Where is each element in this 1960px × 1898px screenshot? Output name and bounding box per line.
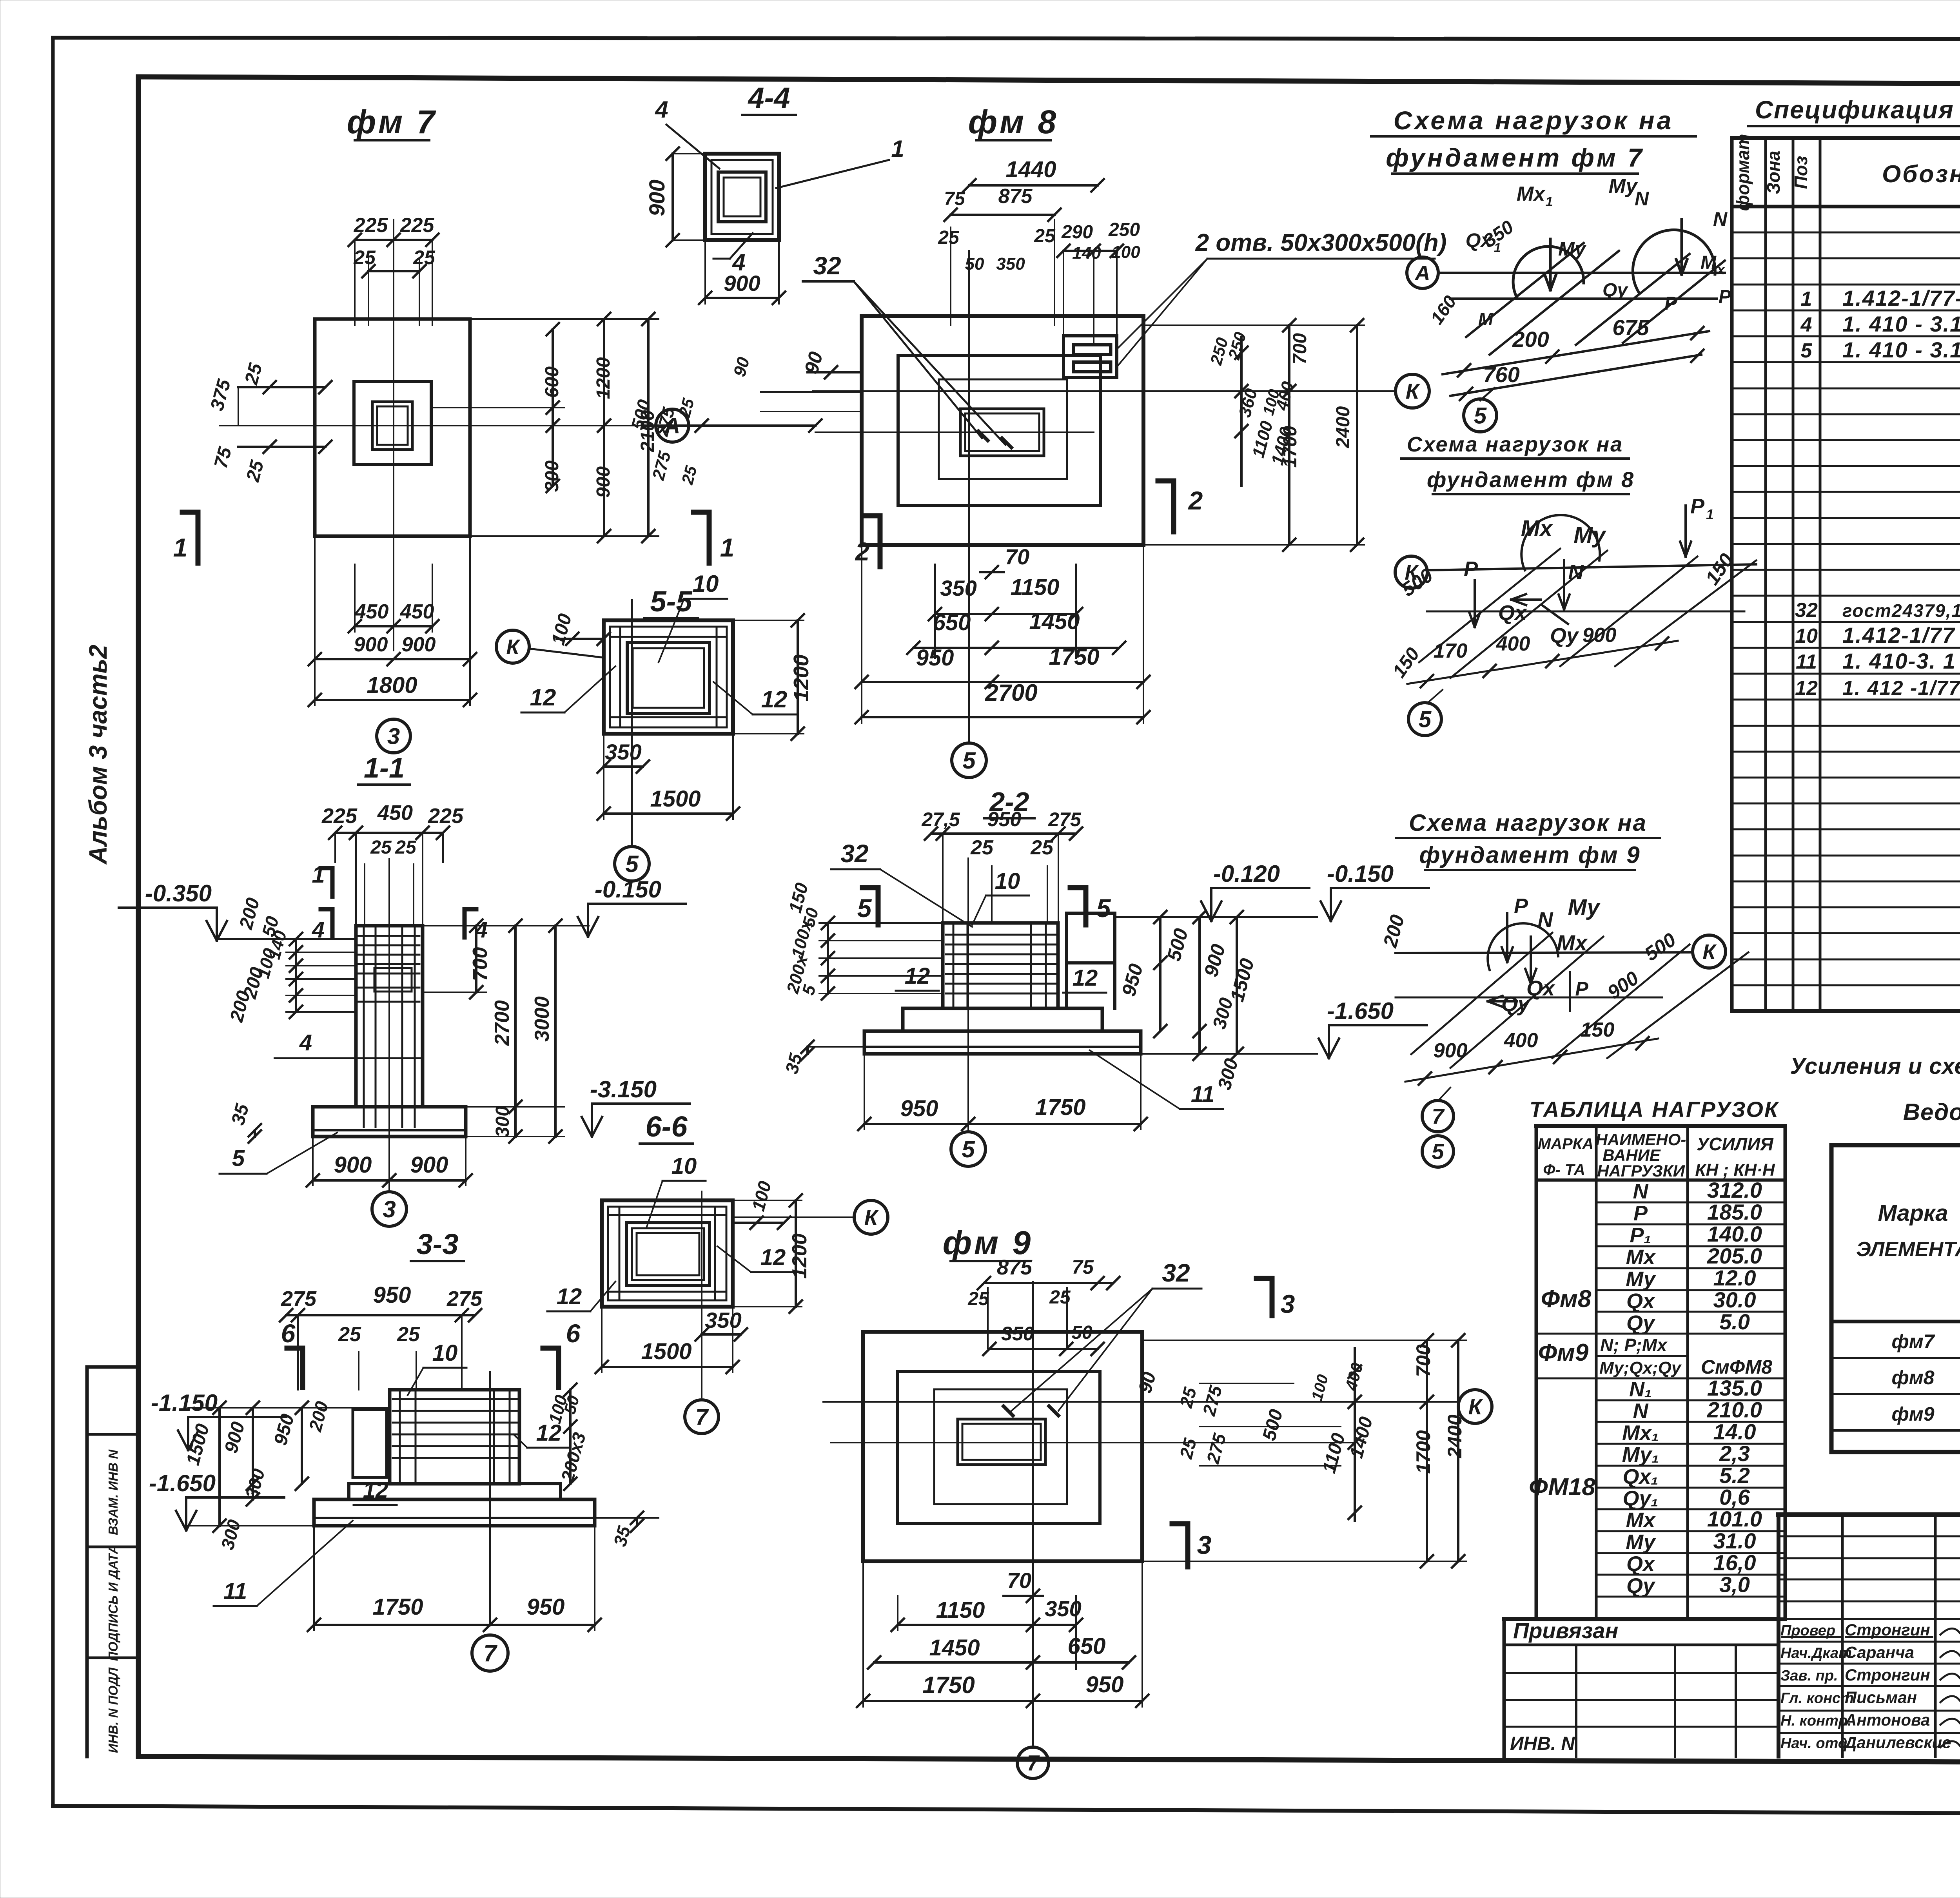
svg-text:ИНВ. N ПОДЛ: ИНВ. N ПОДЛ bbox=[106, 1667, 120, 1753]
svg-text:-1.650: -1.650 bbox=[149, 1470, 216, 1496]
svg-text:5: 5 bbox=[1801, 339, 1813, 362]
svg-text:185.0: 185.0 bbox=[1707, 1200, 1762, 1224]
svg-text:фм 7: фм 7 bbox=[347, 103, 437, 140]
svg-text:-1.650: -1.650 bbox=[1327, 998, 1394, 1024]
svg-text:Схема нагрузок на: Схема нагрузок на bbox=[1409, 810, 1647, 836]
svg-text:90: 90 bbox=[1135, 1370, 1160, 1396]
svg-text:275: 275 bbox=[446, 1287, 483, 1311]
svg-text:Стронгин: Стронгин bbox=[1845, 1621, 1930, 1639]
svg-text:Р: Р bbox=[1633, 1202, 1648, 1225]
svg-text:35: 35 bbox=[228, 1101, 253, 1128]
svg-text:1: 1 bbox=[1706, 506, 1714, 522]
svg-text:200: 200 bbox=[305, 1399, 332, 1434]
svg-text:Зав. пр.: Зав. пр. bbox=[1780, 1668, 1838, 1684]
svg-text:Р: Р bbox=[1690, 495, 1705, 518]
svg-text:Альбом 3 часть2: Альбом 3 часть2 bbox=[84, 645, 112, 865]
svg-text:2400: 2400 bbox=[1444, 1414, 1466, 1458]
svg-text:Ведомость расхода стали: Ведомость расхода стали на элемент, кг bbox=[1903, 1099, 1960, 1125]
svg-text:М: М bbox=[1478, 309, 1494, 329]
svg-text:35: 35 bbox=[610, 1523, 635, 1548]
svg-text:140.0: 140.0 bbox=[1707, 1222, 1762, 1246]
svg-text:2700: 2700 bbox=[491, 1000, 514, 1046]
left stamp column bbox=[87, 1367, 138, 1757]
svg-text:Обозначение: Обозначение bbox=[1882, 161, 1960, 188]
svg-text:4: 4 bbox=[299, 1030, 312, 1055]
svg-text:900: 900 bbox=[334, 1152, 372, 1178]
svg-text:1750: 1750 bbox=[372, 1594, 423, 1620]
svg-text:фм8: фм8 bbox=[1891, 1367, 1934, 1389]
svg-text:3-3: 3-3 bbox=[417, 1228, 459, 1260]
svg-text:1200: 1200 bbox=[788, 1233, 811, 1279]
svg-text:12.0: 12.0 bbox=[1713, 1265, 1756, 1290]
svg-text:225: 225 bbox=[428, 804, 464, 828]
svg-text:фм9: фм9 bbox=[1891, 1403, 1934, 1425]
svg-text:Qу: Qу bbox=[1501, 992, 1531, 1016]
svg-text:150: 150 bbox=[1389, 644, 1424, 682]
svg-text:1440: 1440 bbox=[1005, 157, 1056, 182]
svg-text:3: 3 bbox=[1281, 1289, 1295, 1318]
svg-text:2 отв. 50х300х500(h): 2 отв. 50х300х500(h) bbox=[1195, 229, 1447, 256]
load scheme FM8 title bbox=[1401, 433, 1635, 494]
svg-text:900: 900 bbox=[410, 1152, 448, 1178]
svg-text:3: 3 bbox=[383, 1196, 396, 1222]
svg-text:300: 300 bbox=[1209, 995, 1237, 1031]
svg-text:400: 400 bbox=[1504, 1029, 1538, 1052]
svg-text:700: 700 bbox=[469, 947, 492, 981]
svg-text:900: 900 bbox=[1583, 624, 1617, 647]
svg-text:А: А bbox=[1414, 261, 1430, 285]
svg-text:Ф- ТА: Ф- ТА bbox=[1543, 1161, 1585, 1178]
svg-text:Гл. конст: Гл. конст bbox=[1780, 1690, 1854, 1707]
svg-text:10: 10 bbox=[995, 868, 1020, 894]
svg-text:1750: 1750 bbox=[922, 1672, 975, 1698]
svg-text:3: 3 bbox=[387, 723, 400, 749]
svg-text:50: 50 bbox=[965, 254, 984, 274]
svg-text:Му: Му bbox=[1568, 895, 1601, 920]
svg-text:25: 25 bbox=[370, 837, 392, 858]
svg-text:1500: 1500 bbox=[650, 786, 701, 812]
svg-text:Qу: Qу bbox=[1550, 624, 1579, 647]
svg-text:1: 1 bbox=[720, 533, 735, 562]
svg-text:100: 100 bbox=[1308, 1373, 1332, 1403]
svg-text:900: 900 bbox=[354, 633, 388, 656]
svg-text:Мх: Мх bbox=[1557, 930, 1588, 955]
svg-text:Qу₁: Qу₁ bbox=[1622, 1487, 1658, 1510]
svg-text:12: 12 bbox=[1795, 677, 1818, 700]
svg-text:7: 7 bbox=[695, 1404, 709, 1430]
FM8 plan bbox=[800, 103, 1446, 778]
svg-text:Нач.Дкат: Нач.Дкат bbox=[1780, 1645, 1852, 1662]
svg-text:150: 150 bbox=[1581, 1019, 1615, 1041]
svg-text:275: 275 bbox=[649, 449, 675, 482]
svg-text:900: 900 bbox=[593, 466, 614, 498]
svg-text:12: 12 bbox=[530, 684, 556, 711]
svg-text:12: 12 bbox=[761, 686, 788, 712]
svg-text:250: 250 bbox=[1108, 219, 1140, 240]
svg-text:Qх: Qх bbox=[1498, 601, 1527, 625]
svg-text:700: 700 bbox=[1412, 1344, 1434, 1377]
svg-text:Му;Qх;Qу: Му;Qх;Qу bbox=[1599, 1358, 1682, 1378]
svg-text:300: 300 bbox=[492, 1106, 513, 1137]
svg-text:Данилевские: Данилевские bbox=[1844, 1733, 1951, 1752]
svg-text:фм 8: фм 8 bbox=[968, 103, 1059, 140]
svg-text:К: К bbox=[1406, 379, 1421, 404]
svg-text:1750: 1750 bbox=[1049, 644, 1099, 670]
svg-text:2: 2 bbox=[1188, 486, 1203, 515]
svg-text:32: 32 bbox=[1795, 599, 1818, 622]
svg-text:2,3: 2,3 bbox=[1719, 1441, 1750, 1466]
svg-text:6-6: 6-6 bbox=[646, 1110, 688, 1143]
svg-text:5: 5 bbox=[1096, 894, 1111, 923]
svg-text:Qх: Qх bbox=[1626, 1289, 1655, 1313]
svg-text:Мх: Мх bbox=[1626, 1245, 1656, 1269]
load table text bbox=[1529, 1130, 1775, 1597]
svg-text:25: 25 bbox=[1176, 1436, 1201, 1461]
svg-text:75: 75 bbox=[211, 444, 236, 471]
svg-text:25: 25 bbox=[242, 458, 268, 484]
title block grid bbox=[1779, 1515, 1960, 1757]
svg-text:350: 350 bbox=[705, 1308, 741, 1332]
svg-text:1450: 1450 bbox=[929, 1635, 980, 1661]
svg-text:7: 7 bbox=[1027, 1751, 1040, 1775]
svg-text:Усиления и схемы нагрузок на Ф: Усиления и схемы нагрузок на Фм7см. Фм5 … bbox=[1790, 1053, 1960, 1079]
section marks 2 bbox=[855, 481, 1203, 567]
svg-text:Му: Му bbox=[1626, 1530, 1657, 1554]
svg-text:К: К bbox=[1702, 940, 1717, 964]
svg-text:312.0: 312.0 bbox=[1707, 1178, 1762, 1202]
svg-text:225: 225 bbox=[321, 804, 358, 828]
section 1-1 bbox=[119, 752, 564, 1226]
svg-text:700: 700 bbox=[1290, 333, 1310, 364]
svg-text:101.0: 101.0 bbox=[1707, 1506, 1762, 1531]
svg-text:950: 950 bbox=[900, 1096, 938, 1121]
load scheme FM7 title bbox=[1371, 106, 1696, 174]
svg-text:3,0: 3,0 bbox=[1719, 1572, 1750, 1597]
svg-text:N: N bbox=[1635, 188, 1649, 210]
svg-text:Qу: Qу bbox=[1602, 280, 1628, 301]
svg-text:N: N bbox=[1538, 908, 1553, 932]
svg-text:290: 290 bbox=[1061, 222, 1093, 243]
svg-text:950: 950 bbox=[527, 1594, 565, 1620]
svg-text:5-5: 5-5 bbox=[650, 585, 693, 618]
svg-text:Саранча: Саранча bbox=[1845, 1643, 1914, 1662]
svg-text:5: 5 bbox=[1474, 403, 1487, 428]
svg-text:ЭЛЕМЕНТА: ЭЛЕМЕНТА bbox=[1856, 1238, 1960, 1261]
svg-text:12: 12 bbox=[760, 1245, 786, 1270]
svg-text:1800: 1800 bbox=[367, 673, 417, 698]
svg-text:1: 1 bbox=[312, 861, 325, 888]
svg-text:Qх₁: Qх₁ bbox=[1622, 1465, 1658, 1488]
svg-text:950: 950 bbox=[373, 1282, 411, 1308]
svg-text:32: 32 bbox=[1162, 1259, 1190, 1287]
svg-text:100: 100 bbox=[548, 611, 576, 647]
svg-text:350: 350 bbox=[996, 254, 1025, 274]
svg-text:100: 100 bbox=[748, 1179, 775, 1213]
svg-text:ИНВ. N: ИНВ. N bbox=[1510, 1733, 1575, 1754]
svg-text:875: 875 bbox=[997, 1256, 1033, 1279]
svg-text:1. 412 -1/77 - В.3 - 110: 1. 412 -1/77 - В.3 - 110 bbox=[1842, 677, 1960, 700]
svg-text:1450: 1450 bbox=[1029, 609, 1080, 634]
svg-text:1: 1 bbox=[1801, 288, 1812, 310]
svg-text:25: 25 bbox=[353, 247, 376, 268]
svg-text:Мх: Мх bbox=[1517, 183, 1546, 205]
svg-text:ПОДПИСЬ И ДАТА: ПОДПИСЬ И ДАТА bbox=[106, 1545, 120, 1661]
svg-text:32: 32 bbox=[840, 839, 868, 868]
svg-text:14.0: 14.0 bbox=[1713, 1419, 1756, 1444]
vedomost table grid bbox=[1831, 1145, 1960, 1452]
load scheme FM9 bbox=[1379, 894, 1748, 1167]
svg-text:Qу: Qу bbox=[1626, 1574, 1656, 1597]
svg-text:-0.350: -0.350 bbox=[145, 880, 212, 906]
svg-text:900: 900 bbox=[1434, 1039, 1468, 1062]
svg-text:35: 35 bbox=[781, 1051, 806, 1076]
svg-text:МАРКА: МАРКА bbox=[1538, 1135, 1593, 1153]
svg-text:N: N bbox=[1633, 1180, 1649, 1203]
svg-text:Р: Р bbox=[1575, 978, 1588, 1000]
svg-text:Схема нагрузок на: Схема нагрузок на bbox=[1394, 106, 1674, 135]
svg-text:950: 950 bbox=[987, 808, 1022, 831]
svg-text:75: 75 bbox=[944, 189, 965, 209]
svg-text:25: 25 bbox=[1176, 1385, 1201, 1410]
svg-text:5.2: 5.2 bbox=[1719, 1463, 1750, 1488]
detail 5-5 bbox=[496, 571, 813, 881]
svg-text:900: 900 bbox=[1200, 942, 1230, 979]
svg-text:Нач. отд: Нач. отд bbox=[1780, 1735, 1847, 1752]
svg-text:30.0: 30.0 bbox=[1713, 1287, 1756, 1312]
svg-text:Р: Р bbox=[1664, 293, 1677, 314]
detail 4-4 bbox=[644, 82, 904, 304]
svg-text:1.412-1/77-В.3-020: 1.412-1/77-В.3-020 bbox=[1842, 286, 1960, 310]
svg-text:275: 275 bbox=[281, 1287, 317, 1311]
svg-text:Мх: Мх bbox=[1626, 1508, 1656, 1532]
svg-text:1-1: 1-1 bbox=[364, 752, 405, 784]
svg-text:Р: Р bbox=[1464, 557, 1478, 581]
svg-text:К: К bbox=[506, 635, 521, 659]
svg-text:Р: Р bbox=[1719, 286, 1731, 307]
svg-text:N: N bbox=[1713, 208, 1728, 230]
svg-text:5: 5 bbox=[962, 747, 976, 774]
svg-text:450: 450 bbox=[354, 600, 389, 623]
svg-text:675: 675 bbox=[1612, 315, 1649, 340]
svg-text:КН ; КН·Н: КН ; КН·Н bbox=[1695, 1160, 1775, 1180]
svg-text:Спецификация монолитных фунд: Спецификация монолитных фундаментов фм7÷… bbox=[1755, 96, 1960, 124]
svg-text:25: 25 bbox=[241, 361, 267, 387]
svg-text:5.0: 5.0 bbox=[1719, 1309, 1750, 1334]
svg-text:11: 11 bbox=[1796, 651, 1817, 673]
svg-text:2400: 2400 bbox=[1333, 406, 1354, 448]
svg-text:ВЗАМ. ИНВ N: ВЗАМ. ИНВ N bbox=[106, 1449, 120, 1535]
svg-text:фундамент фм 9: фундамент фм 9 bbox=[1419, 842, 1641, 868]
svg-text:Мх₁: Мх₁ bbox=[1622, 1421, 1659, 1445]
svg-text:Му: Му bbox=[1573, 522, 1606, 548]
svg-text:фм7: фм7 bbox=[1891, 1331, 1935, 1352]
level -0.150 near 1-1 bbox=[465, 876, 686, 937]
svg-text:6: 6 bbox=[566, 1319, 581, 1348]
svg-text:УСИЛИЯ: УСИЛИЯ bbox=[1697, 1134, 1774, 1154]
svg-text:1200: 1200 bbox=[593, 357, 614, 399]
svg-text:-0.120: -0.120 bbox=[1213, 861, 1280, 887]
svg-text:11: 11 bbox=[223, 1579, 247, 1604]
svg-text:Qу: Qу bbox=[1626, 1311, 1656, 1335]
spec table grid bbox=[1732, 138, 1960, 1011]
spec table rows text bbox=[1795, 208, 1960, 933]
svg-text:Му: Му bbox=[1626, 1267, 1657, 1291]
svg-text:160: 160 bbox=[1426, 292, 1461, 328]
svg-text:170: 170 bbox=[1434, 640, 1468, 662]
svg-text:1150: 1150 bbox=[936, 1597, 985, 1623]
svg-text:5: 5 bbox=[1419, 707, 1432, 732]
svg-text:1100: 1100 bbox=[1319, 1431, 1349, 1476]
svg-text:Марка: Марка bbox=[1878, 1200, 1948, 1226]
svg-text:Му₁: Му₁ bbox=[1622, 1443, 1659, 1467]
svg-text:90: 90 bbox=[730, 355, 753, 379]
svg-text:25: 25 bbox=[397, 1323, 420, 1346]
label 32 top bbox=[803, 252, 1005, 445]
svg-text:31.0: 31.0 bbox=[1713, 1528, 1756, 1553]
svg-text:25: 25 bbox=[938, 227, 960, 248]
svg-text:К: К bbox=[864, 1205, 879, 1230]
svg-text:N: N bbox=[1568, 560, 1584, 584]
svg-text:650: 650 bbox=[1068, 1633, 1106, 1659]
svg-text:500: 500 bbox=[1259, 1407, 1287, 1443]
svg-text:7: 7 bbox=[483, 1640, 497, 1666]
svg-text:1750: 1750 bbox=[1035, 1095, 1085, 1120]
section marks 1-1 bbox=[173, 512, 735, 563]
svg-text:70: 70 bbox=[1005, 544, 1029, 569]
svg-text:Р₁: Р₁ bbox=[1630, 1224, 1651, 1247]
svg-text:25: 25 bbox=[970, 836, 994, 859]
svg-text:3000: 3000 bbox=[531, 996, 554, 1042]
svg-text:10: 10 bbox=[1795, 625, 1818, 647]
svg-text:500: 500 bbox=[1641, 928, 1680, 965]
svg-text:375: 375 bbox=[207, 377, 235, 413]
svg-text:Поз: Поз bbox=[1791, 156, 1811, 189]
svg-text:5: 5 bbox=[232, 1146, 245, 1171]
svg-text:Привязан: Привязан bbox=[1513, 1618, 1618, 1643]
svg-text:1. 410 - 3.1 - 12: 1. 410 - 3.1 - 12 bbox=[1842, 337, 1960, 362]
svg-text:10: 10 bbox=[432, 1340, 458, 1366]
svg-text:100х: 100х bbox=[788, 917, 817, 960]
svg-text:Схема нагрузок на: Схема нагрузок на bbox=[1407, 433, 1623, 456]
svg-text:875: 875 bbox=[998, 185, 1033, 208]
svg-text:N; Р;Мх: N; Р;Мх bbox=[1600, 1335, 1668, 1355]
load scheme FM8 bbox=[1389, 495, 1756, 736]
svg-text:200: 200 bbox=[1512, 327, 1549, 352]
svg-text:1150: 1150 bbox=[1011, 575, 1060, 600]
svg-text:900: 900 bbox=[221, 1419, 249, 1455]
svg-text:300: 300 bbox=[1214, 1056, 1242, 1092]
svg-text:225: 225 bbox=[354, 214, 388, 237]
svg-text:12: 12 bbox=[557, 1284, 582, 1309]
svg-text:НАГРУЗКИ: НАГРУЗКИ bbox=[1597, 1162, 1685, 1180]
svg-text:Н. контр.: Н. контр. bbox=[1780, 1713, 1852, 1729]
svg-text:2700: 2700 bbox=[985, 680, 1037, 706]
FM9 plan bbox=[823, 1224, 1492, 1778]
svg-text:3: 3 bbox=[1197, 1530, 1212, 1559]
svg-text:275: 275 bbox=[1198, 1383, 1226, 1418]
load scheme FM9 title bbox=[1396, 810, 1660, 870]
svg-text:4: 4 bbox=[655, 96, 668, 123]
svg-text:К: К bbox=[1468, 1394, 1483, 1419]
svg-text:Р: Р bbox=[1514, 894, 1528, 918]
detail 6-6 bbox=[547, 1110, 888, 1434]
svg-text:5: 5 bbox=[857, 894, 872, 923]
spec table header text bbox=[1733, 134, 1960, 211]
svg-text:25: 25 bbox=[395, 837, 417, 858]
svg-text:СмФМ8: СмФМ8 bbox=[1701, 1356, 1772, 1378]
svg-text:1700: 1700 bbox=[1412, 1430, 1434, 1474]
svg-text:Qх: Qх bbox=[1526, 977, 1555, 1000]
svg-text:4: 4 bbox=[732, 249, 745, 276]
svg-text:Зона: Зона bbox=[1763, 150, 1784, 194]
dims left of FM8 bbox=[627, 355, 862, 487]
svg-text:1: 1 bbox=[891, 136, 904, 162]
svg-text:135.0: 135.0 bbox=[1707, 1376, 1762, 1400]
svg-text:фундамент фм 8: фундамент фм 8 bbox=[1427, 467, 1635, 492]
svg-text:1. 410-3. 1 - 12: 1. 410-3. 1 - 12 bbox=[1842, 649, 1960, 673]
svg-text:400: 400 bbox=[1496, 633, 1530, 655]
svg-text:7: 7 bbox=[1432, 1104, 1445, 1129]
vedomost table text bbox=[1856, 1149, 1960, 1425]
svg-text:фундамент фм 7: фундамент фм 7 bbox=[1386, 143, 1644, 172]
svg-text:2: 2 bbox=[855, 537, 870, 566]
svg-text:350: 350 bbox=[940, 576, 976, 600]
svg-text:12: 12 bbox=[363, 1477, 388, 1503]
svg-text:1. 410 - 3.1 - 01: 1. 410 - 3.1 - 01 bbox=[1842, 312, 1960, 336]
svg-text:16,0: 16,0 bbox=[1713, 1550, 1756, 1575]
svg-text:25: 25 bbox=[1034, 226, 1056, 247]
svg-text:Му: Му bbox=[1609, 175, 1639, 198]
svg-text:32: 32 bbox=[813, 252, 841, 280]
svg-text:450: 450 bbox=[400, 600, 434, 623]
svg-text:75: 75 bbox=[1072, 1256, 1094, 1278]
svg-text:900: 900 bbox=[644, 179, 669, 216]
svg-text:Му: Му bbox=[1558, 238, 1586, 260]
svg-text:25: 25 bbox=[678, 464, 701, 487]
svg-text:Стронгин: Стронгин bbox=[1845, 1666, 1930, 1684]
svg-text:600: 600 bbox=[542, 366, 563, 398]
svg-text:950: 950 bbox=[1118, 961, 1147, 999]
svg-text:760: 760 bbox=[1483, 362, 1519, 387]
svg-text:4-4: 4-4 bbox=[748, 82, 790, 114]
load scheme FM7 bbox=[1407, 175, 1731, 432]
svg-text:ФМ18: ФМ18 bbox=[1529, 1474, 1595, 1501]
svg-text:11: 11 bbox=[1191, 1082, 1214, 1107]
svg-text:Антонова: Антонова bbox=[1844, 1711, 1930, 1729]
svg-text:900: 900 bbox=[402, 633, 436, 656]
svg-text:200х3: 200х3 bbox=[557, 1430, 590, 1484]
svg-text:25: 25 bbox=[338, 1323, 361, 1346]
section 3-3 bbox=[149, 1228, 659, 1671]
svg-text:формат: формат bbox=[1733, 134, 1753, 211]
svg-text:450: 450 bbox=[377, 801, 413, 825]
svg-text:5: 5 bbox=[962, 1136, 975, 1162]
svg-text:Мх: Мх bbox=[1521, 516, 1553, 541]
title block text bbox=[1780, 1530, 1960, 1755]
svg-text:1200: 1200 bbox=[789, 654, 813, 702]
svg-text:5: 5 bbox=[1432, 1139, 1444, 1164]
svg-text:25: 25 bbox=[967, 1289, 989, 1309]
svg-text:225: 225 bbox=[400, 214, 435, 237]
svg-text:200: 200 bbox=[1379, 912, 1408, 950]
svg-text:-3.150: -3.150 bbox=[590, 1076, 657, 1102]
svg-text:275: 275 bbox=[1202, 1431, 1230, 1466]
svg-text:12: 12 bbox=[1073, 965, 1098, 991]
svg-text:N: N bbox=[1633, 1399, 1649, 1423]
load table grid bbox=[1536, 1126, 1785, 1619]
svg-text:650: 650 bbox=[933, 610, 971, 635]
svg-text:950: 950 bbox=[1086, 1672, 1124, 1697]
